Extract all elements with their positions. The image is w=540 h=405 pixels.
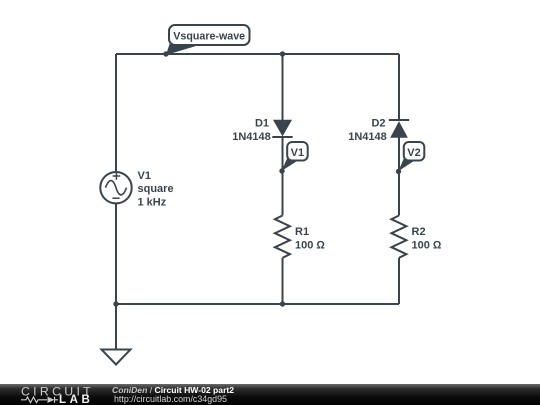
wire bottom horizontal <box>116 303 399 305</box>
diode D1 triangle (pointing down) <box>274 120 291 135</box>
node junction dot right branch probe V2 <box>396 169 401 174</box>
probe flag V2 box <box>404 142 425 161</box>
svg-text:square: square <box>138 183 174 195</box>
probe flag V1 tail <box>282 158 298 172</box>
node label Vsquare-wave callout tail <box>166 41 201 55</box>
node junction dot top rail / label tap <box>163 51 168 56</box>
svg-text:V2: V2 <box>407 147 420 159</box>
wire right branch: R2 to bottom rail <box>398 258 400 304</box>
wire left vertical upper (top rail to V1 source) <box>115 54 117 172</box>
wire right branch: D2 anode to resistor R2 <box>398 138 400 216</box>
node junction dot bottom rail / middle branch <box>280 301 285 306</box>
svg-text:R1: R1 <box>295 226 309 238</box>
resistor R1 zigzag <box>275 216 290 258</box>
node junction dot bottom rail / ground <box>113 301 118 306</box>
ground symbol <box>102 350 131 365</box>
CircuitLab logo <box>0 384 100 405</box>
voltage source V1 circle <box>100 172 131 203</box>
probe flag V1 box <box>287 142 308 161</box>
wire middle branch: D1 cathode to resistor R1 <box>282 137 284 216</box>
svg-text:R2: R2 <box>412 226 426 238</box>
footer bar <box>0 384 540 405</box>
wire right branch: top rail to diode D2 <box>398 54 400 120</box>
wire middle branch: R1 to bottom rail <box>282 258 284 304</box>
voltage source V1 minus sign <box>112 197 119 199</box>
wire ground stem <box>115 304 117 350</box>
svg-text:1N4148: 1N4148 <box>348 131 387 143</box>
svg-text:1 kHz: 1 kHz <box>138 197 167 209</box>
diode D1 cathode bar <box>272 136 292 138</box>
diode D2 triangle (pointing up) <box>391 122 407 137</box>
voltage source V1 sine glyph <box>106 181 127 195</box>
wire top horizontal <box>116 53 399 55</box>
wire left vertical lower (V1 source to bottom rail) <box>115 204 117 305</box>
diode D2 cathode bar <box>389 119 409 121</box>
node junction dot top rail / middle branch <box>280 51 285 56</box>
resistor R2 zigzag <box>391 216 406 258</box>
svg-text:V1: V1 <box>291 147 304 159</box>
svg-text:LAB: LAB <box>59 394 93 405</box>
svg-text:D2: D2 <box>371 118 385 130</box>
svg-text:V1: V1 <box>138 170 151 182</box>
svg-text:100 Ω: 100 Ω <box>295 239 325 251</box>
svg-text:Vsquare-wave: Vsquare-wave <box>173 31 245 43</box>
svg-text:D1: D1 <box>255 118 269 130</box>
voltage source V1 plus sign <box>113 172 121 180</box>
wire middle branch: top rail to diode D1 <box>282 54 284 121</box>
svg-text:100 Ω: 100 Ω <box>412 239 442 251</box>
node label Vsquare-wave callout box <box>169 25 250 45</box>
node junction dot middle branch probe V1 <box>279 168 284 173</box>
probe flag V2 tail <box>398 158 414 172</box>
svg-text:1N4148: 1N4148 <box>232 131 271 143</box>
